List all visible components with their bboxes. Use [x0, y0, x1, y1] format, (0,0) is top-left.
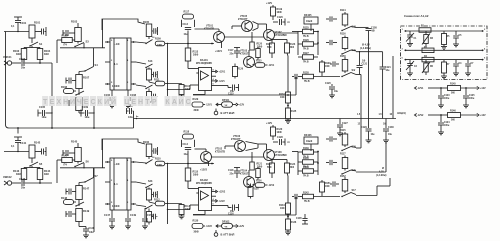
resistor R4 on rail3	[422, 57, 434, 62]
svg-text:C101: C101	[20, 21, 27, 25]
B ATT terminal ch2	[214, 233, 218, 237]
svg-text:R118: R118	[184, 131, 190, 134]
transistor VT107	[264, 30, 275, 41]
ground top-left ch2	[14, 136, 22, 138]
capacitor C114	[185, 147, 191, 149]
svg-text:10Ф: 10Ф	[280, 96, 285, 99]
svg-text:C1: C1	[414, 38, 418, 40]
svg-text:10мФ: 10мФ	[306, 140, 312, 143]
svg-text:XW102: XW102	[3, 175, 12, 179]
resistor R126 horizontal	[298, 43, 302, 45]
svg-text:16: 16	[390, 114, 393, 116]
watermark TEHNICHESKIY CENTR KAIS	[42, 96, 48, 106]
svg-text:DK105: DK105	[304, 14, 312, 17]
capacitor C101	[15, 20, 21, 22]
wire vertical rail x361 low	[360, 119, 362, 149]
bus wire right segment	[134, 118, 397, 120]
switch S6	[75, 163, 84, 167]
resistor R140 horizontal	[298, 161, 302, 163]
resistor R128 horizontal	[298, 76, 302, 78]
svg-text:0,1: 0,1	[11, 145, 15, 148]
svg-text:R125: R125	[256, 61, 262, 63]
capacitor C106	[111, 90, 113, 97]
bus wire left segment	[9, 127, 134, 129]
svg-text:1-1: 1-1	[114, 62, 118, 66]
svg-text:4: 4	[213, 78, 215, 81]
resistor R110 oval	[155, 161, 165, 166]
svg-text:КТ3107Г: КТ3107Г	[238, 18, 248, 21]
att col junction wires	[317, 32, 319, 56]
capacitor C111	[126, 108, 128, 114]
transistor VT108	[264, 150, 275, 161]
svg-text:ч1: ч1	[287, 22, 290, 24]
capacitor C131	[359, 52, 361, 65]
svg-text:Т: Т	[145, 99, 150, 106]
svg-text:C105: C105	[39, 106, 46, 109]
svg-text:+12V: +12V	[239, 104, 245, 107]
resistor R152 vertical	[336, 183, 339, 185]
capacitor C147	[111, 210, 113, 218]
svg-text:В АТТ ВНЛ: В АТТ ВНЛ	[221, 111, 235, 115]
svg-text:3Ф3: 3Ф3	[44, 173, 49, 176]
svg-text:И: И	[104, 99, 109, 106]
resistor R114 vertical	[333, 18, 337, 20]
svg-text:5: 5	[402, 58, 404, 60]
feedback bridge wire ch2	[102, 139, 145, 150]
svg-text:1ФФ: 1ФФ	[277, 131, 282, 134]
resistor R105 horizontal	[62, 38, 73, 43]
resistor R109 oval	[155, 41, 165, 46]
trimmer resistor R6	[425, 60, 427, 64]
svg-text:R105: R105	[62, 34, 69, 38]
resistor R117 vertical	[333, 162, 337, 164]
capacitor C105	[37, 110, 39, 117]
resistor R139 horizontal	[298, 151, 302, 153]
svg-text:1.5: 1.5	[357, 114, 361, 116]
svg-text:1-1Ф: 1-1Ф	[114, 162, 121, 166]
capacitor C142	[21, 180, 23, 186]
svg-text:R135: R135	[291, 110, 297, 113]
svg-text:R128: R128	[303, 72, 309, 75]
switch S4г	[342, 73, 351, 77]
capacitor C129	[368, 119, 370, 129]
svg-text:R123: R123	[290, 43, 296, 46]
capacitor C151	[144, 208, 146, 218]
opamp bottom stub	[204, 91, 206, 95]
transistor VT101	[214, 32, 225, 43]
svg-text:20н: 20н	[21, 187, 26, 190]
junction wires under switch	[24, 47, 40, 49]
svg-text:-12V2: -12V2	[206, 225, 213, 228]
resistor R104	[37, 49, 43, 60]
svg-text:R148: R148	[61, 197, 68, 200]
svg-text:R106: R106	[143, 141, 150, 144]
svg-text:R115: R115	[340, 129, 346, 132]
switch S1	[30, 42, 38, 46]
resistor R106c low	[147, 212, 152, 223]
switch S4в	[342, 50, 351, 54]
resistor R107 with cap stub	[65, 78, 67, 84]
svg-text:C149: C149	[130, 214, 137, 217]
svg-text:КТ3102БМ: КТ3102БМ	[275, 34, 287, 37]
capacitor C109	[80, 110, 82, 117]
resistor R142	[29, 145, 35, 158]
svg-text:C4: C4	[459, 62, 463, 65]
svg-text:R136: R136	[291, 221, 297, 224]
svg-text:3: 3	[111, 180, 113, 182]
svg-text:R5: R5	[447, 36, 451, 38]
wire gain row1 ch1	[60, 47, 105, 49]
resistor R141 horizontal	[298, 170, 302, 172]
capacitor C130	[385, 119, 387, 129]
wire S4b output	[356, 26, 369, 28]
IC box U1 (1-1Ф matrix)	[110, 38, 131, 90]
svg-text:Ч: Ч	[77, 99, 82, 106]
resistor R130 oval att row	[192, 224, 203, 229]
capacitor C128	[273, 141, 278, 143]
resistor R105b mid	[147, 69, 152, 80]
svg-text:10н: 10н	[184, 34, 189, 36]
switch S6b row2	[76, 202, 84, 206]
feedback bridge tail ch1	[102, 19, 104, 48]
svg-text:XW101: XW101	[3, 55, 12, 59]
svg-text:К: К	[165, 99, 170, 106]
ground top-left ch1	[14, 16, 22, 18]
resistor R136 vertical chain	[286, 219, 291, 230]
resistor R105	[146, 24, 152, 37]
svg-text:10Ф: 10Ф	[280, 207, 285, 210]
switch S1а ch1	[146, 40, 153, 44]
resistor R142 horizontal	[298, 196, 302, 198]
svg-text:1Фн: 1Фн	[128, 116, 133, 119]
svg-text:S2б: S2б	[148, 180, 153, 183]
capacitor stub right of R142	[35, 151, 41, 153]
svg-text:3Ф3: 3Ф3	[44, 53, 49, 56]
svg-text:ПЧ.В: ПЧ.В	[303, 176, 309, 178]
svg-text:1ФФ: 1ФФ	[157, 164, 162, 167]
svg-text:КТ3107Г: КТ3107Г	[231, 138, 241, 141]
svg-text:S7: S7	[95, 174, 99, 178]
svg-text:-12V2: -12V2	[219, 201, 226, 203]
svg-text:100н: 100н	[444, 125, 450, 127]
svg-text:14н: 14н	[386, 69, 391, 72]
svg-text:4ФФ: 4ФФ	[185, 208, 190, 211]
capacitor C117 gnd cap ch2	[234, 167, 240, 169]
svg-text:ПЧ.В: ПЧ.В	[303, 36, 309, 38]
svg-text:C118: C118	[228, 170, 234, 172]
svg-text:1-1Ф: 1-1Ф	[114, 42, 121, 46]
svg-text:2: 2	[127, 82, 129, 84]
svg-text:C126: C126	[277, 16, 283, 19]
resistor R105c low	[147, 92, 152, 103]
svg-text:R128: R128	[253, 189, 259, 191]
capacitor C5	[455, 31, 457, 35]
wire att row ch2	[193, 214, 296, 216]
svg-text:R101: R101	[34, 21, 41, 25]
resistor R2 on rail2	[422, 48, 434, 53]
svg-text:R109: R109	[155, 38, 161, 41]
svg-text:R134: R134	[279, 204, 285, 207]
svg-text:1Фн: 1Фн	[89, 231, 94, 234]
svg-text:4а: 4а	[136, 115, 139, 118]
svg-text:ЧК: ЧК	[225, 226, 229, 228]
svg-text:R117: R117	[340, 153, 346, 156]
switch S4б	[342, 27, 351, 31]
svg-text:+12V: +12V	[480, 114, 486, 117]
resistor R113 vertical	[185, 48, 191, 61]
svg-text:АСЦК1): АСЦК1)	[397, 112, 406, 115]
wire rail to opamp ch2	[168, 209, 191, 211]
svg-text:ПЧ.В: ПЧ.В	[303, 62, 309, 64]
wire S4v output	[356, 51, 383, 53]
svg-text:R107: R107	[83, 76, 90, 80]
rail 1 in box	[405, 30, 484, 32]
svg-text:ЧК: ЧК	[225, 105, 229, 107]
wire input node ch1	[4, 31, 29, 33]
cluster wires	[246, 142, 259, 145]
svg-text:(1,2-КОм): (1,2-КОм)	[360, 47, 371, 50]
resistor R1 on rail1	[419, 28, 431, 33]
svg-text:C109: C109	[82, 106, 89, 109]
resistor R147 with cap stub	[65, 189, 67, 195]
svg-text:ч1: ч1	[287, 142, 290, 144]
resistor R111 oval	[155, 81, 165, 86]
wire vertical rail x361	[360, 75, 362, 119]
svg-text:+12V1: +12V1	[215, 50, 223, 53]
svg-text:100н: 100н	[444, 98, 450, 100]
svg-text:10Ф: 10Ф	[325, 185, 330, 188]
svg-text:C147: C147	[104, 214, 111, 217]
svg-text:4: 4	[127, 159, 129, 162]
resistor R115 vertical	[333, 138, 337, 140]
svg-text:Е: Е	[131, 99, 136, 106]
svg-text:С: С	[90, 99, 95, 106]
svg-text:+12V: +12V	[239, 225, 245, 228]
svg-text:S4г: S4г	[352, 69, 356, 72]
svg-text:1-10Ф: 1-10Ф	[112, 204, 120, 208]
svg-text:4: 4	[127, 179, 129, 182]
resistor R150 vertical	[336, 63, 339, 65]
svg-text:10н: 10н	[334, 91, 339, 93]
resistor R116 vertical	[333, 42, 337, 44]
svg-text:КР140УД608Б: КР140УД608Б	[196, 182, 212, 185]
resistor R127 small ch2	[257, 167, 259, 169]
svg-text:ПЧ.В: ПЧ.В	[304, 81, 310, 83]
wire input node ch2	[4, 151, 29, 153]
wire gaincol bottom ch1	[79, 112, 81, 114]
switch S2б	[342, 147, 351, 151]
svg-text:R146: R146	[450, 110, 456, 113]
wire att to cluster	[292, 31, 298, 33]
resistor R143	[21, 169, 27, 180]
svg-text:Ц: Ц	[124, 99, 130, 106]
wire gain row1 ch2	[60, 167, 105, 169]
capacitor stub right of R105	[152, 30, 153, 32]
svg-text:(1,2-КОм): (1,2-КОм)	[376, 175, 387, 177]
svg-text:C129: C129	[361, 126, 367, 129]
capacitor stub right of R101	[35, 31, 41, 33]
svg-text:R127: R127	[303, 52, 309, 55]
svg-text:R130: R130	[193, 220, 199, 223]
svg-text:Р: Р	[152, 99, 157, 106]
svg-text:C5: C5	[459, 35, 463, 37]
svg-text:R126: R126	[303, 39, 309, 42]
resistor R127 small ch1	[257, 47, 259, 49]
att col junction wires	[317, 152, 319, 176]
stack rail ch2	[167, 164, 169, 225]
svg-text:3: 3	[111, 60, 113, 62]
svg-text:К: К	[98, 99, 103, 106]
svg-text:4ФФ: 4ФФ	[185, 88, 190, 91]
svg-text:1Фн: 1Фн	[42, 116, 47, 119]
svg-text:А: А	[172, 99, 177, 106]
capacitor C117 gnd cap ch1	[234, 47, 240, 49]
svg-text:10мФ: 10мФ	[306, 20, 312, 23]
svg-text:+12V: +12V	[266, 1, 272, 5]
svg-text:КТ361Г): КТ361Г)	[240, 53, 249, 56]
svg-text:DP102: DP102	[222, 220, 230, 223]
switch S7	[93, 168, 95, 178]
resistor R101	[29, 25, 35, 38]
wire S4g output	[356, 74, 361, 76]
svg-text:560: 560	[451, 93, 456, 95]
wire input rail x52	[51, 63, 53, 128]
wire vertical rail x386 low	[385, 143, 387, 172]
capacitor C124	[440, 115, 442, 122]
svg-text:R142: R142	[303, 192, 309, 195]
feedback bridge wire ch1	[102, 19, 145, 30]
svg-text:0,1: 0,1	[11, 25, 15, 28]
svg-text:+12V2: +12V2	[219, 192, 226, 194]
resistor R147 horizontal	[62, 158, 73, 163]
svg-text:S5: S5	[39, 162, 43, 166]
svg-text:56Ф: 56Ф	[267, 46, 272, 49]
svg-text:Е: Е	[84, 99, 89, 106]
capacitor C113	[185, 27, 191, 29]
svg-text:3Ф3: 3Ф3	[16, 53, 21, 56]
wire ch2 gnd stub	[17, 128, 19, 134]
capacitor C116	[216, 205, 228, 207]
svg-text:-12V1: -12V1	[206, 104, 213, 107]
capacitor C127	[339, 119, 341, 125]
wire cluster to att ch2	[292, 151, 298, 153]
capacitor C135	[304, 214, 306, 218]
transistor VT105	[242, 21, 253, 32]
wire vertical rail x382	[382, 70, 384, 119]
resistor R118 loop	[181, 140, 183, 147]
svg-text:R113: R113	[193, 51, 199, 54]
switch S1г ch1	[146, 85, 153, 89]
svg-text:КР140УД608Б: КР140УД608Б	[196, 62, 212, 65]
svg-text:3Ф3: 3Ф3	[16, 173, 21, 176]
svg-text:ПЧ: ПЧ	[64, 164, 68, 167]
resistor R121 emitter small	[251, 152, 253, 162]
svg-text:-12V2: -12V2	[417, 114, 424, 117]
capacitor C123	[440, 88, 442, 95]
svg-text:R120: R120	[257, 44, 263, 46]
svg-text:C102: C102	[19, 57, 26, 61]
wire bottom att to right	[356, 195, 377, 197]
resistor R134 vertical chain	[287, 176, 289, 203]
svg-text:R125: R125	[303, 27, 309, 30]
svg-text:R110: R110	[155, 158, 161, 161]
resistor R125 oval to -12V ch1	[253, 64, 256, 67]
svg-text:R120: R120	[277, 128, 283, 131]
svg-text:КТ361Г): КТ361Г)	[240, 173, 249, 176]
svg-text:3Ф3: 3Ф3	[290, 46, 295, 49]
wire rail x94	[93, 96, 95, 128]
svg-text:R150: R150	[340, 55, 346, 58]
svg-text:R112: R112	[154, 199, 160, 202]
svg-text:Х: Х	[56, 99, 61, 106]
svg-text:C123: C123	[444, 95, 450, 97]
svg-text:1-1: 1-1	[114, 182, 118, 186]
trimmer capacitor C1	[409, 31, 411, 35]
svg-text:Е: Е	[50, 99, 55, 106]
IC box U2 (1-1Ф matrix)	[110, 158, 131, 210]
svg-text:3ФФ: 3ФФ	[194, 231, 199, 234]
svg-text:R142: R142	[34, 141, 41, 145]
svg-text:R140: R140	[303, 157, 309, 160]
svg-text:R115: R115	[193, 171, 199, 174]
svg-text:4: 4	[213, 198, 215, 201]
transistor VT106	[235, 141, 246, 152]
svg-text:Й: Й	[111, 97, 116, 106]
svg-text:C135: C135	[296, 217, 302, 220]
resistor R127 vertical small	[321, 60, 323, 62]
svg-text:R121: R121	[266, 43, 272, 46]
svg-text:ПЧ.В: ПЧ.В	[303, 49, 309, 51]
junction wires under switch	[24, 167, 40, 169]
capacitor C102	[21, 60, 23, 66]
capacitor C108	[127, 90, 129, 97]
dashed box A1 A2	[401, 26, 488, 80]
svg-text:2ФФ: 2ФФ	[193, 174, 198, 177]
switch S3	[75, 43, 84, 47]
switch S5	[30, 162, 38, 166]
svg-text:R149: R149	[83, 209, 90, 213]
svg-text:DK106: DK106	[304, 134, 312, 137]
svg-text:5: 5	[111, 160, 113, 162]
svg-text:22н: 22н	[230, 54, 235, 56]
resistor R128 vertical	[250, 184, 252, 187]
svg-text:С: С	[186, 99, 191, 106]
svg-text:R147: R147	[62, 154, 69, 158]
resistor R103 with cap stub	[62, 30, 64, 36]
transistor VT103	[244, 57, 255, 68]
svg-text:5: 5	[111, 82, 113, 84]
feedback bridge tail ch2	[102, 139, 104, 168]
capacitor C121	[382, 52, 384, 67]
svg-text:C120: C120	[325, 82, 331, 85]
svg-text:+12V1: +12V1	[219, 72, 226, 74]
resistor R125 horizontal	[298, 31, 302, 33]
resistor R135 vertical chain	[286, 108, 291, 119]
svg-text:R133: R133	[279, 93, 285, 96]
svg-text:+12V: +12V	[266, 121, 272, 125]
svg-text:20н: 20н	[21, 67, 26, 70]
wire vt to att top	[275, 32, 299, 34]
switch S1а ch2	[146, 160, 153, 164]
svg-text:-12V1: -12V1	[268, 65, 275, 67]
svg-text:560: 560	[451, 120, 456, 122]
resistor R148 oval	[64, 200, 74, 205]
resistor R133 vertical chain	[287, 56, 289, 92]
svg-text:R145: R145	[71, 140, 78, 144]
svg-text:56Ф: 56Ф	[267, 166, 272, 169]
svg-text:R108: R108	[61, 86, 68, 89]
svg-text:R121: R121	[257, 164, 263, 166]
